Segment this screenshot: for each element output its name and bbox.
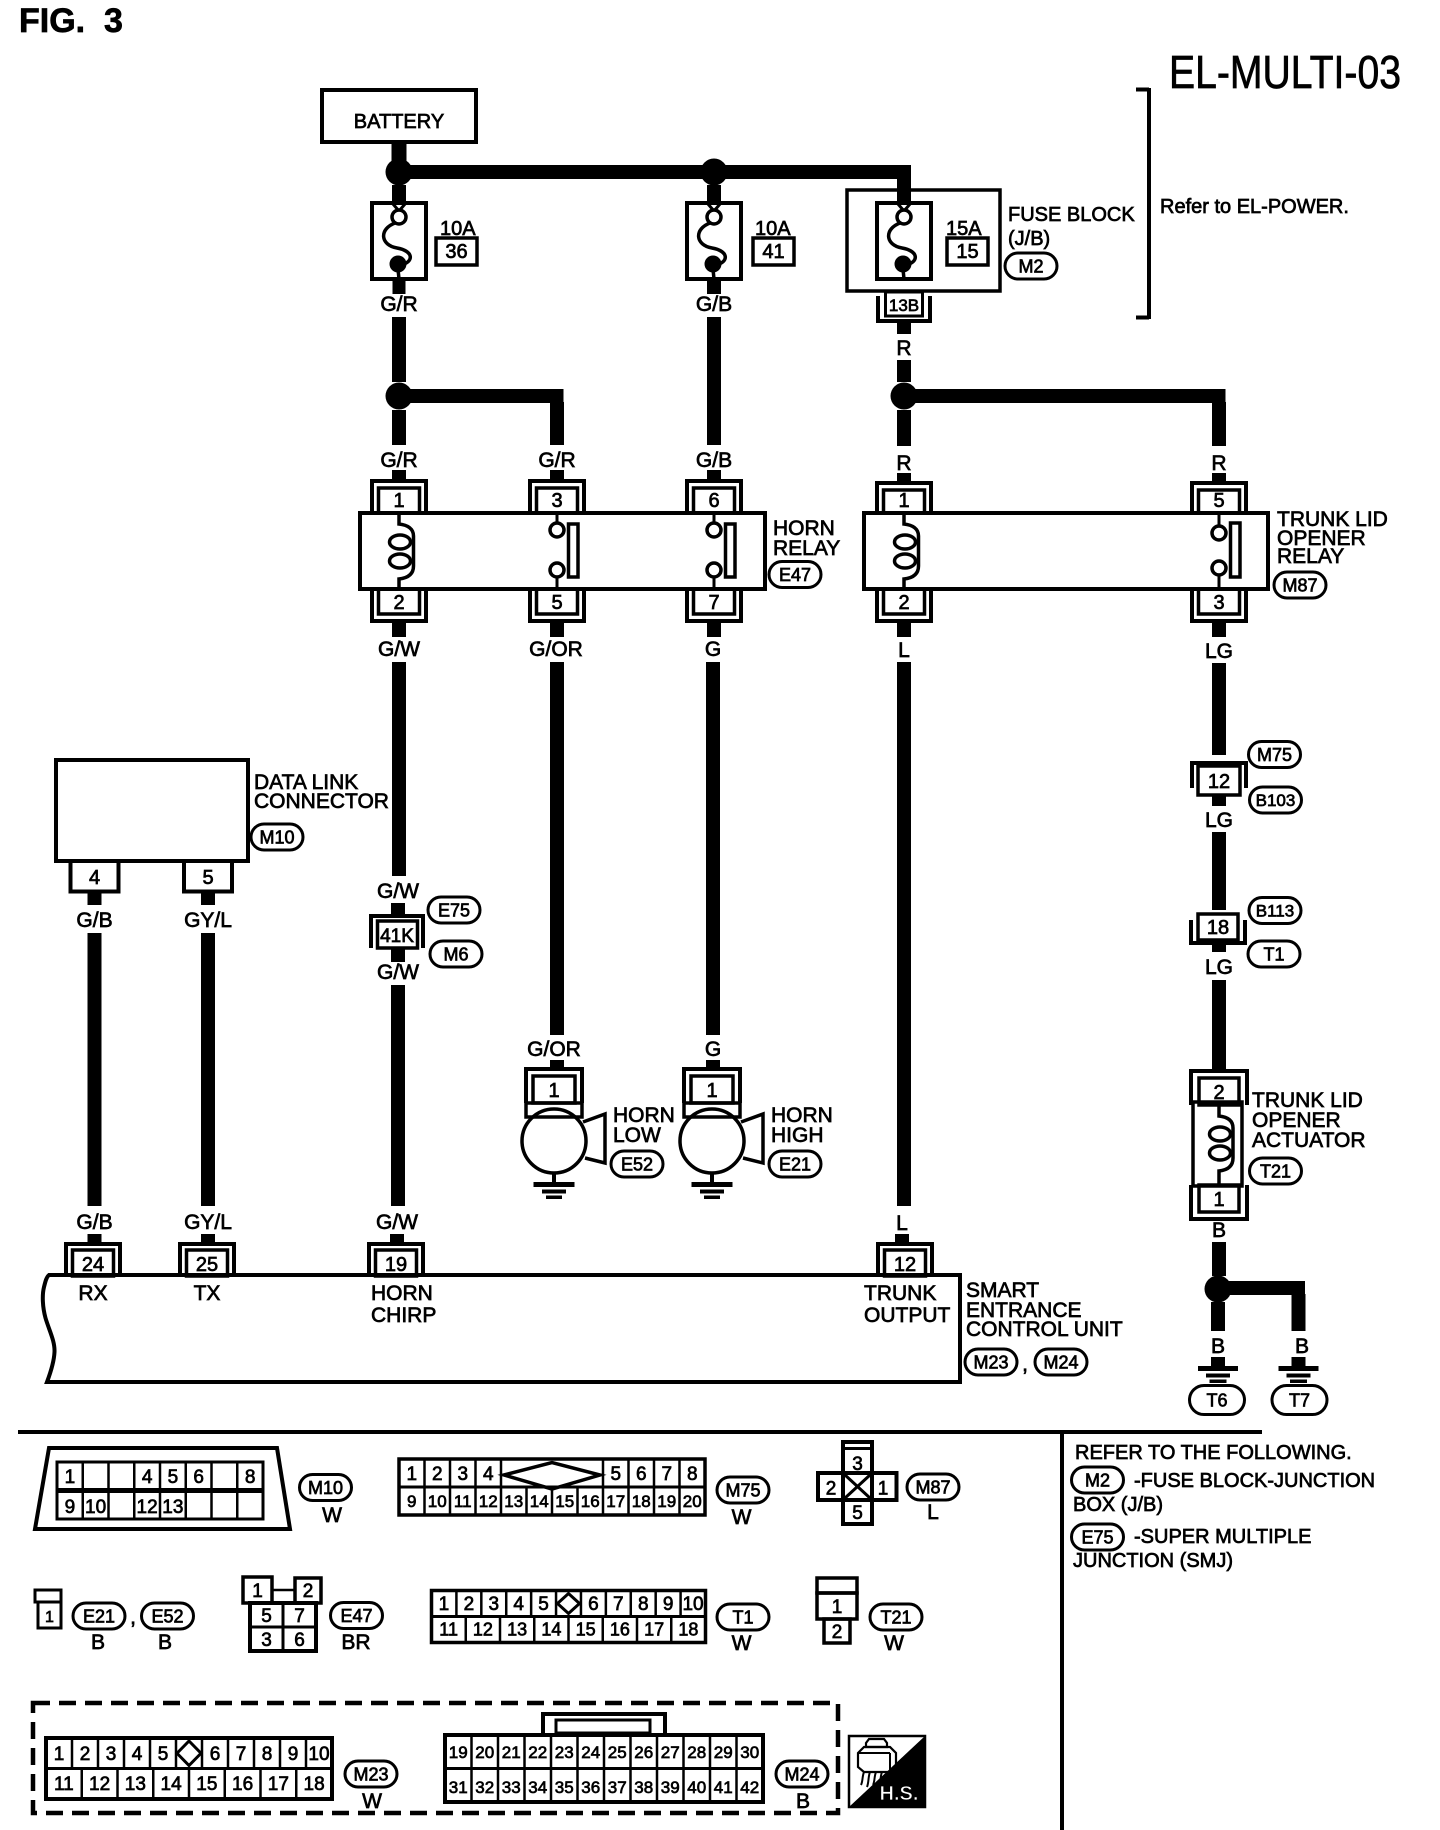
svg-text:TX: TX	[194, 1282, 221, 1305]
svg-text:JUNCTION (SMJ): JUNCTION (SMJ)	[1073, 1550, 1233, 1572]
svg-text:,: ,	[1022, 1353, 1028, 1376]
svg-text:7: 7	[294, 1606, 305, 1627]
svg-text:M6: M6	[443, 944, 468, 964]
svg-text:18: 18	[678, 1620, 698, 1640]
svg-text:12: 12	[1208, 771, 1230, 793]
svg-text:E52: E52	[151, 1606, 183, 1626]
svg-text:6: 6	[636, 1464, 647, 1485]
svg-text:GY/L: GY/L	[184, 909, 232, 932]
svg-text:3: 3	[106, 1744, 117, 1765]
svg-text:1: 1	[45, 1609, 54, 1626]
svg-text:36: 36	[445, 241, 467, 263]
svg-text:33: 33	[502, 1778, 521, 1797]
svg-text:G/R: G/R	[380, 293, 417, 316]
svg-text:H.S.: H.S.	[880, 1783, 919, 1805]
svg-text:9: 9	[288, 1744, 299, 1765]
svg-text:6: 6	[193, 1467, 204, 1488]
svg-text:40: 40	[687, 1778, 706, 1797]
svg-text:L: L	[927, 1501, 939, 1524]
svg-text:R: R	[896, 337, 911, 360]
svg-text:TRUNK: TRUNK	[864, 1282, 936, 1305]
svg-text:3: 3	[1213, 592, 1224, 614]
svg-text:W: W	[732, 1506, 752, 1529]
svg-text:16: 16	[581, 1492, 600, 1511]
svg-text:OUTPUT: OUTPUT	[864, 1304, 951, 1327]
svg-text:1: 1	[706, 1080, 717, 1102]
svg-text:18: 18	[1207, 917, 1229, 939]
svg-text:7: 7	[708, 592, 719, 614]
svg-text:LOW: LOW	[613, 1124, 661, 1147]
svg-text:M10: M10	[308, 1478, 343, 1498]
svg-text:CONTROL UNIT: CONTROL UNIT	[966, 1318, 1123, 1341]
svg-text:M10: M10	[259, 827, 294, 847]
svg-text:4: 4	[132, 1744, 143, 1765]
svg-text:8: 8	[262, 1744, 273, 1765]
svg-text:B: B	[158, 1631, 172, 1654]
svg-text:1: 1	[1213, 1189, 1224, 1211]
svg-text:LG: LG	[1205, 956, 1233, 979]
svg-text:19: 19	[657, 1492, 676, 1511]
svg-text:6: 6	[708, 490, 719, 512]
svg-text:B113: B113	[1256, 901, 1294, 920]
svg-text:12: 12	[473, 1620, 493, 1640]
svg-text:W: W	[322, 1504, 342, 1527]
svg-text:13: 13	[162, 1497, 183, 1518]
svg-text:E52: E52	[621, 1154, 653, 1174]
svg-text:5: 5	[158, 1744, 169, 1765]
svg-text:RX: RX	[78, 1282, 107, 1305]
svg-text:G/B: G/B	[76, 1211, 112, 1234]
svg-text:18: 18	[632, 1492, 651, 1511]
svg-text:25: 25	[608, 1743, 627, 1762]
svg-text:B: B	[1212, 1219, 1226, 1242]
svg-text:28: 28	[687, 1743, 706, 1762]
svg-text:4: 4	[89, 867, 100, 889]
svg-text:15: 15	[576, 1620, 596, 1640]
svg-text:20: 20	[683, 1492, 702, 1511]
svg-text:T21: T21	[1260, 1161, 1291, 1181]
svg-text:11: 11	[439, 1620, 458, 1640]
svg-text:RELAY: RELAY	[1277, 545, 1344, 568]
svg-text:G/B: G/B	[76, 909, 112, 932]
svg-text:1: 1	[878, 1479, 889, 1500]
svg-text:5: 5	[852, 1503, 863, 1524]
svg-text:2: 2	[80, 1744, 91, 1765]
svg-text:14: 14	[541, 1620, 561, 1640]
svg-text:24: 24	[581, 1743, 600, 1762]
svg-text:T1: T1	[1263, 944, 1284, 964]
svg-text:23: 23	[555, 1743, 574, 1762]
svg-text:5: 5	[168, 1467, 179, 1488]
svg-text:Refer to EL-POWER.: Refer to EL-POWER.	[1160, 196, 1349, 218]
svg-text:14: 14	[530, 1492, 549, 1511]
svg-text:M75: M75	[725, 1480, 760, 1500]
svg-text:5: 5	[202, 867, 213, 889]
svg-text:7: 7	[661, 1464, 672, 1485]
svg-text:13: 13	[507, 1620, 527, 1640]
svg-text:16: 16	[610, 1620, 630, 1640]
svg-text:E21: E21	[83, 1606, 115, 1626]
svg-text:19: 19	[385, 1254, 407, 1276]
svg-text:,: ,	[130, 1606, 136, 1629]
svg-text:3: 3	[457, 1464, 468, 1485]
svg-text:L: L	[896, 1212, 908, 1235]
svg-text:5: 5	[551, 592, 562, 614]
svg-text:LG: LG	[1205, 640, 1233, 663]
svg-text:T21: T21	[880, 1607, 911, 1627]
svg-text:12: 12	[89, 1774, 110, 1795]
svg-text:2: 2	[832, 1622, 843, 1643]
svg-text:1: 1	[252, 1581, 263, 1602]
svg-text:G: G	[705, 638, 721, 661]
svg-text:2: 2	[826, 1479, 837, 1500]
svg-text:1: 1	[406, 1464, 417, 1485]
svg-text:39: 39	[661, 1778, 680, 1797]
svg-text:W: W	[884, 1632, 904, 1655]
svg-text:BATTERY: BATTERY	[354, 111, 444, 133]
svg-text:1: 1	[832, 1597, 843, 1618]
svg-text:M23: M23	[973, 1352, 1008, 1372]
svg-text:21: 21	[502, 1743, 521, 1762]
svg-text:HIGH: HIGH	[771, 1124, 824, 1147]
svg-text:31: 31	[449, 1778, 468, 1797]
svg-text:M87: M87	[915, 1477, 950, 1497]
svg-text:35: 35	[555, 1778, 574, 1797]
svg-text:HORN: HORN	[371, 1282, 433, 1305]
svg-text:27: 27	[661, 1743, 680, 1762]
svg-text:-FUSE BLOCK-JUNCTION: -FUSE BLOCK-JUNCTION	[1134, 1470, 1375, 1492]
svg-text:11: 11	[54, 1774, 74, 1795]
svg-text:T6: T6	[1206, 1390, 1227, 1410]
svg-text:8: 8	[638, 1594, 649, 1615]
svg-text:1: 1	[65, 1467, 76, 1488]
svg-text:13: 13	[504, 1492, 523, 1511]
svg-text:17: 17	[268, 1774, 289, 1795]
svg-text:CONNECTOR: CONNECTOR	[254, 790, 389, 813]
svg-text:1: 1	[54, 1744, 65, 1765]
svg-text:2: 2	[432, 1464, 443, 1485]
svg-text:G/W: G/W	[376, 1211, 418, 1234]
svg-text:7: 7	[613, 1594, 624, 1615]
svg-text:25: 25	[196, 1254, 218, 1276]
svg-text:4: 4	[483, 1464, 494, 1485]
svg-text:19: 19	[449, 1743, 468, 1762]
svg-text:2: 2	[393, 592, 404, 614]
svg-text:15: 15	[956, 241, 978, 263]
svg-text:15: 15	[196, 1774, 217, 1795]
svg-text:6: 6	[588, 1594, 599, 1615]
svg-text:G/W: G/W	[377, 880, 419, 903]
svg-text:M2: M2	[1085, 1470, 1110, 1490]
svg-text:12: 12	[894, 1254, 916, 1276]
svg-text:42: 42	[740, 1778, 759, 1797]
svg-text:41K: 41K	[380, 926, 414, 947]
svg-text:38: 38	[634, 1778, 653, 1797]
svg-text:E21: E21	[779, 1154, 811, 1174]
svg-text:M2: M2	[1018, 256, 1043, 276]
svg-text:B: B	[1295, 1335, 1309, 1358]
svg-text:34: 34	[528, 1778, 547, 1797]
svg-text:7: 7	[236, 1744, 247, 1765]
svg-text:T7: T7	[1289, 1390, 1310, 1410]
svg-text:W: W	[362, 1790, 382, 1813]
svg-text:9: 9	[663, 1594, 674, 1615]
svg-text:R: R	[896, 452, 911, 475]
svg-text:L: L	[898, 639, 910, 662]
svg-text:17: 17	[644, 1620, 664, 1640]
svg-text:10: 10	[428, 1492, 447, 1511]
svg-text:8: 8	[687, 1464, 698, 1485]
svg-text:9: 9	[407, 1492, 416, 1511]
svg-text:13B: 13B	[889, 296, 919, 315]
svg-text:B: B	[1211, 1335, 1225, 1358]
svg-text:36: 36	[581, 1778, 600, 1797]
svg-text:10: 10	[682, 1594, 703, 1615]
svg-text:E47: E47	[779, 565, 811, 585]
svg-text:3: 3	[852, 1454, 863, 1475]
svg-text:30: 30	[740, 1743, 759, 1762]
svg-text:FIG. 3: FIG. 3	[19, 2, 123, 40]
svg-text:9: 9	[65, 1497, 76, 1518]
svg-text:5: 5	[610, 1464, 621, 1485]
svg-text:1: 1	[393, 490, 404, 512]
svg-text:2: 2	[898, 592, 909, 614]
svg-text:B: B	[796, 1790, 810, 1813]
svg-text:E75: E75	[1081, 1527, 1113, 1547]
svg-text:EL-MULTI-03: EL-MULTI-03	[1169, 46, 1401, 98]
svg-text:41: 41	[714, 1778, 733, 1797]
svg-text:G/R: G/R	[538, 449, 575, 472]
svg-text:41: 41	[762, 241, 784, 263]
svg-text:10: 10	[85, 1497, 106, 1518]
svg-text:26: 26	[634, 1743, 653, 1762]
svg-text:29: 29	[714, 1743, 733, 1762]
svg-text:M75: M75	[1257, 745, 1292, 765]
svg-text:LG: LG	[1205, 809, 1233, 832]
svg-text:RELAY: RELAY	[773, 537, 840, 560]
svg-text:CHIRP: CHIRP	[371, 1304, 436, 1327]
svg-text:FUSE BLOCK: FUSE BLOCK	[1008, 204, 1135, 226]
svg-text:G/B: G/B	[696, 293, 732, 316]
svg-text:M24: M24	[1043, 1352, 1078, 1372]
svg-text:14: 14	[161, 1774, 183, 1795]
svg-text:22: 22	[528, 1743, 547, 1762]
svg-text:BR: BR	[341, 1631, 370, 1654]
svg-text:12: 12	[479, 1492, 498, 1511]
svg-text:G/B: G/B	[696, 449, 732, 472]
svg-text:(J/B): (J/B)	[1008, 228, 1050, 250]
svg-text:REFER TO THE FOLLOWING.: REFER TO THE FOLLOWING.	[1075, 1442, 1352, 1464]
svg-text:W: W	[732, 1632, 752, 1655]
svg-text:ACTUATOR: ACTUATOR	[1252, 1129, 1366, 1152]
svg-text:M24: M24	[784, 1764, 819, 1784]
svg-text:4: 4	[142, 1467, 153, 1488]
svg-text:T1: T1	[732, 1607, 753, 1627]
svg-text:12: 12	[137, 1497, 158, 1518]
svg-text:G/OR: G/OR	[527, 1038, 581, 1061]
svg-text:3: 3	[551, 490, 562, 512]
svg-text:5: 5	[261, 1606, 272, 1627]
svg-text:M23: M23	[353, 1764, 388, 1784]
svg-text:G: G	[705, 1038, 721, 1061]
svg-text:2: 2	[464, 1594, 475, 1615]
svg-text:3: 3	[261, 1630, 272, 1651]
svg-text:R: R	[1211, 452, 1226, 475]
svg-text:16: 16	[232, 1774, 253, 1795]
svg-text:4: 4	[513, 1594, 524, 1615]
svg-text:E75: E75	[438, 900, 470, 920]
svg-text:B103: B103	[1256, 791, 1296, 810]
svg-text:3: 3	[488, 1594, 499, 1615]
svg-text:18: 18	[304, 1774, 325, 1795]
svg-text:G/R: G/R	[380, 449, 417, 472]
svg-text:G/OR: G/OR	[529, 638, 583, 661]
svg-text:1: 1	[548, 1080, 559, 1102]
svg-text:17: 17	[606, 1492, 625, 1511]
svg-text:G/W: G/W	[377, 961, 419, 984]
svg-text:B: B	[91, 1631, 105, 1654]
svg-text:8: 8	[245, 1467, 256, 1488]
svg-text:M87: M87	[1282, 575, 1317, 595]
svg-text:GY/L: GY/L	[184, 1211, 232, 1234]
svg-text:-SUPER MULTIPLE: -SUPER MULTIPLE	[1134, 1526, 1311, 1548]
svg-text:1: 1	[898, 490, 909, 512]
svg-text:BOX (J/B): BOX (J/B)	[1073, 1494, 1163, 1516]
svg-text:5: 5	[538, 1594, 549, 1615]
svg-text:2: 2	[303, 1581, 314, 1602]
svg-text:E47: E47	[340, 1606, 372, 1626]
svg-text:G/W: G/W	[378, 638, 420, 661]
svg-text:5: 5	[1213, 490, 1224, 512]
svg-text:13: 13	[125, 1774, 146, 1795]
svg-text:10: 10	[308, 1744, 329, 1765]
svg-text:32: 32	[475, 1778, 494, 1797]
svg-text:15: 15	[555, 1492, 574, 1511]
svg-text:37: 37	[608, 1778, 627, 1797]
svg-text:6: 6	[210, 1744, 221, 1765]
svg-text:24: 24	[82, 1254, 104, 1276]
svg-text:6: 6	[294, 1630, 305, 1651]
svg-text:1: 1	[439, 1594, 450, 1615]
svg-text:20: 20	[475, 1743, 494, 1762]
svg-text:11: 11	[454, 1492, 472, 1511]
